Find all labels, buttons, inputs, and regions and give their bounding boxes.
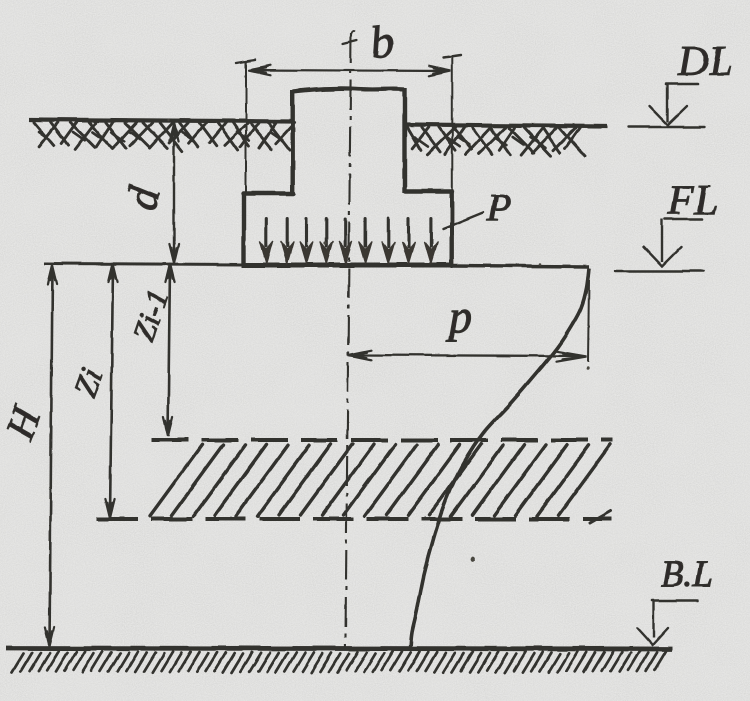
level mark B.L bbox=[637, 554, 713, 645]
centre line (dash-dot) bbox=[343, 31, 357, 648]
level mark DL bbox=[629, 39, 734, 127]
dimension d bbox=[169, 122, 178, 263]
compressible layer bottom dashed line bbox=[97, 517, 612, 521]
svg-text:FL: FL bbox=[667, 178, 719, 224]
dimension H bbox=[45, 265, 57, 646]
right ground hatching bbox=[407, 127, 585, 156]
paper speckles bbox=[167, 119, 590, 562]
bottom bearing stratum line bbox=[6, 648, 672, 649]
right ground surface line bbox=[404, 125, 607, 127]
foundation level line FL bbox=[44, 264, 243, 265]
svg-text:p: p bbox=[446, 291, 472, 342]
left ground hatching bbox=[34, 122, 295, 151]
compressible layer top dashed line bbox=[151, 438, 613, 442]
p extension line at curve maximum bbox=[588, 280, 589, 362]
left ground surface line bbox=[29, 120, 292, 122]
pressure distribution curve bbox=[411, 268, 590, 648]
svg-text:B.L: B.L bbox=[661, 554, 713, 595]
footing / pier outline bbox=[242, 88, 453, 265]
dimension Zi bbox=[105, 263, 117, 518]
distributed load arrows P under footing bbox=[260, 219, 438, 264]
svg-text:P: P bbox=[486, 185, 511, 230]
compressible layer hatching bbox=[150, 444, 611, 523]
dimension p with arrows bbox=[348, 350, 587, 362]
label P with leader bbox=[443, 213, 484, 230]
svg-text:DL: DL bbox=[677, 39, 734, 85]
dimension Zi-1 bbox=[163, 263, 174, 436]
level mark FL bbox=[615, 178, 719, 271]
bedrock hatching below base line bbox=[12, 651, 666, 672]
dimension b : extension lines and ticks bbox=[236, 55, 461, 192]
dimension b : dimension line with arrows bbox=[249, 65, 451, 76]
